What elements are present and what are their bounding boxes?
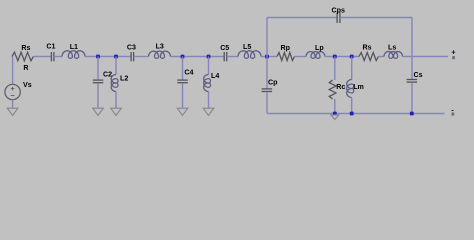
node Lm: [350, 55, 354, 59]
wire C5-L5: [227, 56, 238, 58]
bottom rail: [267, 113, 445, 115]
svg-text:Cs: Cs: [414, 71, 423, 79]
wire L2 top: [115, 57, 117, 75]
svg-text:Rs: Rs: [21, 44, 30, 52]
node L2: [114, 55, 118, 59]
voltage source Vs: [5, 84, 20, 99]
junction Lm bottom: [350, 112, 354, 116]
wire node A up: [266, 18, 268, 57]
wire Rs2-Ls: [379, 56, 385, 58]
svg-text:Rc: Rc: [336, 83, 345, 91]
resistor Rs: [12, 52, 33, 61]
capacitor C5: [224, 52, 227, 61]
svg-text:Rs: Rs: [363, 44, 372, 52]
inductor L5: [238, 51, 261, 59]
capacitor Cp: [262, 89, 273, 92]
svg-text:Cps: Cps: [332, 7, 345, 15]
svg-text:Lm: Lm: [353, 83, 364, 91]
capacitor Cs: [407, 80, 418, 83]
resistor Rp: [277, 53, 295, 61]
svg-text:L3: L3: [156, 43, 164, 51]
svg-text:C5: C5: [220, 44, 229, 52]
ground on bottom rail: [331, 115, 339, 120]
wire Cp down: [266, 57, 268, 89]
wire L1-C3: [85, 56, 131, 58]
wire Cps down: [411, 18, 413, 80]
ground below C2: [93, 108, 104, 115]
node C2: [96, 55, 100, 59]
wire C3-L3: [134, 56, 149, 58]
capacitor C1: [51, 52, 54, 61]
wire top left: [267, 17, 337, 19]
node A: [265, 55, 269, 59]
resistor Rc: [329, 80, 336, 99]
wire L5-node: [261, 56, 277, 58]
svg-text:C4: C4: [184, 69, 193, 77]
ground below L2: [111, 108, 122, 115]
wire Vs to Rs: [12, 57, 14, 85]
svg-text:+: +: [451, 48, 455, 56]
inductor L3: [149, 51, 171, 58]
wire Rc bottom: [334, 99, 336, 114]
capacitor C3: [131, 52, 134, 61]
wire Vs to ground: [12, 100, 14, 109]
wire L2 bottom: [115, 92, 117, 109]
svg-text:L2: L2: [120, 74, 128, 82]
wire Lm top: [351, 57, 353, 80]
wire top right: [340, 17, 412, 19]
svg-text:C2: C2: [103, 70, 112, 78]
pin minus: [452, 113, 455, 116]
wire Cp bottom: [266, 92, 268, 114]
wire Cs bottom: [411, 82, 413, 113]
inductor Lm: [347, 80, 354, 98]
resistor Rs2: [359, 53, 379, 61]
capacitor C4: [177, 80, 188, 83]
svg-text:Rp: Rp: [281, 44, 291, 52]
node Rc: [333, 55, 337, 59]
wire C4 top: [182, 57, 184, 80]
svg-text:Cp: Cp: [268, 79, 278, 87]
wire Rc top: [334, 57, 336, 81]
inductor Lp: [306, 52, 325, 59]
wire C2 bottom: [97, 83, 99, 108]
inductor L2: [111, 75, 118, 92]
wire L4 bottom: [208, 92, 210, 109]
svg-text:R: R: [23, 64, 28, 72]
wire Rp-Lp: [295, 56, 307, 58]
svg-text:Vs: Vs: [23, 81, 32, 89]
pin plus: [452, 56, 455, 59]
wire Lm bottom: [351, 98, 353, 114]
wire L4 top: [208, 57, 210, 75]
wire C1-L1: [54, 56, 62, 58]
inductor Ls: [384, 52, 403, 59]
wire Rs-C1: [33, 56, 51, 58]
node L4: [207, 55, 211, 59]
svg-text:L5: L5: [243, 43, 251, 51]
svg-text:C1: C1: [46, 43, 55, 51]
inductor L1: [62, 51, 85, 59]
svg-text:L4: L4: [211, 72, 219, 80]
wire C2 top: [97, 57, 99, 80]
svg-text:Lp: Lp: [315, 44, 324, 52]
ground below L4: [203, 108, 214, 115]
wire L3-C5: [171, 56, 225, 58]
wire Lp-Rs2: [325, 56, 359, 58]
capacitor C2: [93, 80, 104, 83]
wire C4 bottom: [182, 83, 184, 108]
svg-text:C3: C3: [127, 43, 136, 51]
svg-text:L1: L1: [70, 43, 78, 51]
junction Rc bottom: [333, 112, 337, 116]
ground below Vs: [7, 108, 18, 115]
junction Cs bottom: [410, 112, 414, 116]
svg-text:Ls: Ls: [388, 44, 396, 52]
ground below C4: [177, 108, 188, 115]
capacitor Cps: [337, 12, 340, 23]
inductor L4: [204, 75, 211, 92]
wire Ls-out: [403, 56, 449, 58]
node C4: [181, 55, 185, 59]
